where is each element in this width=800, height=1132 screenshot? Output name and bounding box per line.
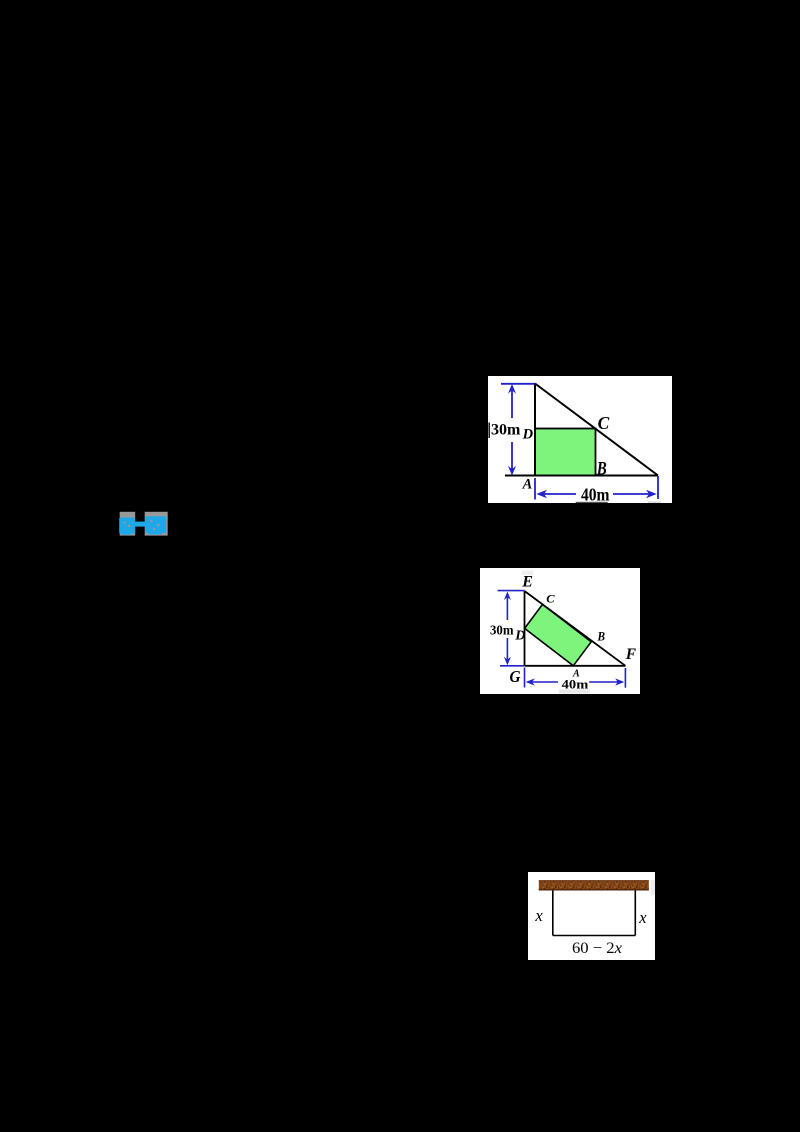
left edge artifact <box>488 423 490 439</box>
svg-text:D: D <box>522 427 534 443</box>
figure 2: triangle EGF with rotated rectangle DCBA <box>480 568 640 694</box>
example badge icon <box>119 511 169 537</box>
triangle <box>505 384 658 476</box>
brown wall bar <box>539 880 649 890</box>
triangle EGF <box>525 591 626 666</box>
svg-text:40m: 40m <box>562 676 589 691</box>
svg-text:B: B <box>597 629 606 644</box>
figure 3: wall with rectangular pen, x and 60-2x <box>528 872 655 960</box>
figure 1: right triangle with inscribed rectangle ABCD <box>488 376 672 503</box>
blue 30m dimension <box>498 591 525 666</box>
svg-text:30m: 30m <box>491 422 521 439</box>
green rotated rectangle DCBA <box>525 604 592 665</box>
svg-text:x: x <box>638 908 647 927</box>
svg-text:G: G <box>510 667 522 686</box>
artifact smudges <box>521 571 533 575</box>
svg-text:C: C <box>598 413 611 433</box>
svg-text:E: E <box>521 574 533 591</box>
svg-text:A: A <box>522 477 533 493</box>
blue 40m dimension <box>535 476 658 500</box>
svg-text:60 − 2x: 60 − 2x <box>572 940 622 957</box>
rectangle sides <box>553 891 636 936</box>
svg-text:D: D <box>514 628 525 643</box>
blue 40m dimension <box>525 668 626 688</box>
svg-text:30m: 30m <box>490 623 514 638</box>
svg-text:x: x <box>534 906 543 925</box>
svg-text:C: C <box>546 592 555 606</box>
bottom artifact strips <box>576 502 608 503</box>
green rectangle ADCB <box>535 429 596 476</box>
svg-text:B: B <box>596 460 607 480</box>
svg-text:F: F <box>625 646 637 663</box>
gray stub right of wall <box>651 880 656 896</box>
blue 30m dimension <box>501 384 535 476</box>
svg-text:40m: 40m <box>581 485 610 504</box>
